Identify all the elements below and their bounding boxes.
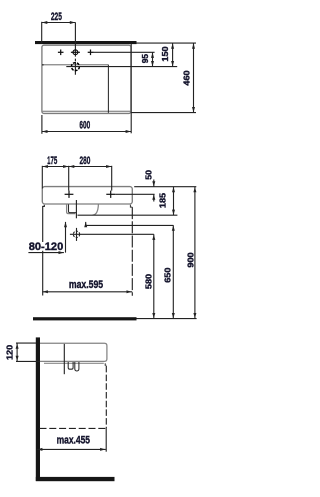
svg-text:600: 600: [79, 120, 90, 132]
svg-text:80-120: 80-120: [29, 241, 64, 253]
siphon cup left (grey): [67, 204, 76, 213]
floor line (side view thick bar): [36, 477, 115, 481]
tap hole centre symbol: [71, 50, 80, 55]
svg-text:900: 900: [185, 252, 195, 268]
80-120 text: [29, 242, 63, 251]
dimension 900: [194, 187, 196, 319]
dimension 185: [173, 187, 175, 216]
svg-text:175: 175: [47, 155, 58, 167]
basin outer outline (top view): [42, 45, 131, 113]
dimension 580: [153, 234, 155, 318]
80-120 leader line: [28, 252, 64, 254]
svg-text:225: 225: [51, 11, 62, 23]
drain reference line to right: [66, 66, 177, 68]
fixing hole left +: [65, 191, 74, 198]
dimension max.595: [42, 291, 132, 293]
dimension 460 (vertical, top view): [193, 43, 195, 113]
rim top reference line to right: [134, 186, 196, 188]
svg-text:50: 50: [143, 170, 153, 180]
floor line (front view thick bar): [33, 317, 137, 320]
basin profile (side view): [40, 343, 107, 361]
dimension 600 extension lines: [41, 115, 43, 134]
bowl right edge (vertical dark): [107, 65, 109, 113]
svg-text:280: 280: [80, 155, 91, 167]
dimension max.455: [37, 448, 106, 450]
svg-text:460: 460: [182, 70, 192, 86]
right extension dashed line down to max.595: [131, 207, 133, 296]
dimension 95 (vertical, top view): [152, 52, 154, 66]
650 top reference line: [86, 224, 174, 226]
outlet height arrow right (650 top): [85, 222, 87, 226]
outlet height arrow left (80-120): [65, 222, 67, 253]
siphon cup (side view): [68, 362, 73, 369]
centerline through tap and drain: [74, 22, 76, 74]
dashed projection lines: [105, 366, 107, 429]
bowl corner tick: [42, 64, 44, 66]
tap hole right mark +: [88, 50, 94, 56]
svg-text:650: 650: [163, 267, 173, 283]
extension line for max.455: [105, 428, 107, 451]
waste outlet symbol (dashed circle with crosshair): [73, 231, 79, 237]
svg-text:95: 95: [140, 54, 150, 64]
dimension 150 (vertical, top view): [172, 43, 174, 67]
outlet curve to underside: [93, 204, 99, 215]
drain centreline (side view): [63, 344, 65, 374]
dimension 175 line: [42, 166, 68, 168]
tap hole left mark +: [58, 50, 64, 56]
drain centreline (front view): [75, 200, 77, 218]
dimension 50 (arrows outside): [153, 180, 155, 187]
fixing hole right +: [106, 191, 115, 198]
step below right corner: [130, 205, 132, 207]
front step (side view): [105, 363, 106, 365]
dimension 225 line: [42, 22, 76, 24]
svg-text:580: 580: [143, 273, 153, 289]
outlet reference line (185 bottom): [78, 214, 178, 216]
svg-text:120: 120: [5, 344, 15, 360]
dimension 225 extension line: [41, 22, 43, 44]
under-slab shadow line: [44, 362, 104, 364]
svg-text:185: 185: [158, 192, 168, 208]
dimension 120 reference lines: [16, 342, 36, 344]
floor reference line to right: [137, 318, 197, 320]
wall line (top view thick bar): [35, 41, 137, 44]
svg-text:max.455: max.455: [57, 434, 91, 446]
siphon inner dark outline: [69, 204, 77, 212]
dimension 280 line: [69, 166, 112, 168]
bowl top edge (grey): [43, 64, 109, 66]
right edge extension line: [130, 44, 132, 133]
front-level reference line to right: [131, 112, 196, 114]
580 top reference line (through outlet symbol): [70, 233, 154, 235]
fixing row reference line to right: [115, 193, 155, 195]
drain symbol (dashed circle with crosshair): [71, 63, 79, 71]
wall line (side view thick bar): [36, 337, 40, 481]
dimension 120: [16, 343, 18, 361]
dimension 650: [172, 225, 174, 318]
left extension line down to max.595: [43, 205, 45, 296]
basin inner front rim line: [43, 110, 131, 112]
washbasin body (front view): [42, 187, 132, 204]
dimension 175/280 extension lines: [41, 166, 43, 189]
svg-text:150: 150: [160, 46, 170, 62]
svg-text:max.595: max.595: [69, 279, 104, 291]
tap row reference line to right: [93, 51, 155, 53]
wall-level reference line to right: [137, 42, 197, 44]
dimension 600 line: [42, 131, 131, 133]
siphon inner marks: [75, 362, 79, 371]
